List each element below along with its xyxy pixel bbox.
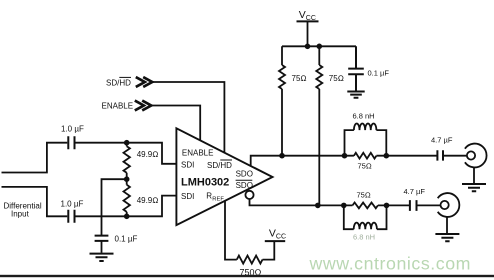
connector J2 BNC bottom	[438, 193, 460, 217]
svg-text:ENABLE: ENABLE	[102, 102, 134, 111]
svg-text:49.9Ω: 49.9Ω	[137, 196, 159, 205]
svg-text:75Ω: 75Ω	[357, 190, 371, 199]
wire ENABLE input	[151, 106, 200, 141]
wire SDO output stub	[251, 156, 345, 166]
node Vcc stem junction	[305, 44, 311, 50]
svg-text:SDO: SDO	[236, 181, 253, 190]
ground under C4	[347, 92, 364, 98]
wire cap to ground	[101, 241, 103, 253]
wire mid node branch	[102, 179, 127, 235]
ground under J2	[435, 234, 459, 241]
wire BNC to ground	[473, 167, 475, 183]
node SDOb/pullup	[315, 203, 321, 209]
wire C6 to BNC	[417, 204, 440, 206]
resistor R7 75ohm top	[345, 153, 387, 159]
svg-text:SDI: SDI	[181, 192, 194, 201]
svg-text:V: V	[269, 228, 276, 240]
svg-text:1.0 µF: 1.0 µF	[61, 200, 84, 209]
node mid R3/R4	[124, 176, 130, 182]
svg-text:ENABLE: ENABLE	[182, 149, 214, 158]
node pullup2 junction	[317, 44, 323, 50]
connector J1 BNC top	[465, 144, 487, 168]
svg-text:75Ω: 75Ω	[329, 74, 344, 83]
svg-text:75Ω: 75Ω	[358, 162, 372, 171]
svg-text:1.0 µF: 1.0 µF	[61, 124, 84, 133]
node combo bottom right	[384, 203, 390, 209]
svg-text:4.7 µF: 4.7 µF	[431, 136, 453, 145]
op-amp U1 LMH0302 triangle	[176, 128, 272, 225]
arrow ENABLE chevrons	[135, 101, 151, 111]
resistor R3 49.9ohm top	[124, 143, 130, 185]
resistor R9 750ohm Rref	[225, 202, 274, 264]
svg-text:SDO: SDO	[236, 170, 253, 179]
svg-text:Input: Input	[11, 209, 30, 218]
node row2/R4	[124, 214, 130, 220]
wire to C5	[386, 155, 436, 157]
wire Vcc stem	[307, 21, 309, 46]
wire input stub top	[2, 143, 68, 173]
wire Vcc rail	[282, 45, 356, 47]
svg-text:SD/HD: SD/HD	[207, 161, 232, 170]
svg-text:CC: CC	[306, 15, 316, 22]
wire input stub bottom	[2, 187, 68, 216]
svg-text:75Ω: 75Ω	[292, 74, 307, 83]
svg-text:www.cntronics.com: www.cntronics.com	[309, 254, 472, 274]
bottom rule	[0, 275, 494, 277]
wire SDO-bar output	[250, 199, 344, 205]
resistor R4 49.9ohm bottom	[124, 185, 130, 217]
svg-text:0.1 µF: 0.1 µF	[115, 235, 138, 244]
ground left	[90, 254, 114, 261]
node combo top left	[342, 153, 348, 159]
capacitor C2 1.0uF bottom plates	[68, 210, 74, 223]
svg-text:49.9Ω: 49.9Ω	[137, 150, 159, 159]
wire row2 to SDI pin	[76, 196, 177, 217]
capacitor C6 4.7uF plates	[410, 200, 417, 211]
resistor R5 75ohm pullup left	[279, 46, 285, 155]
svg-text:CC: CC	[276, 234, 286, 241]
inductor L2 6.8nH bottom	[344, 205, 387, 229]
svg-text:0.1 µF: 0.1 µF	[368, 69, 390, 78]
power Vcc bottom bar	[265, 240, 285, 242]
arrow SD/HD chevrons	[136, 77, 152, 87]
wire to C6	[387, 204, 410, 206]
svg-text:6.8 nH: 6.8 nH	[353, 112, 375, 121]
wire SD/HD input	[152, 82, 224, 153]
svg-text:V: V	[299, 9, 306, 21]
svg-text:6.8 nH: 6.8 nH	[353, 232, 375, 241]
svg-text:4.7 µF: 4.7 µF	[404, 187, 426, 196]
node dots	[124, 44, 389, 220]
output bubble SDO-bar	[245, 191, 253, 199]
inductor L1 6.8nH top	[345, 124, 387, 156]
capacitor C5 4.7uF plates	[437, 150, 443, 160]
capacitor C4 0.1uF plates	[348, 46, 364, 91]
svg-text:SD/HD: SD/HD	[106, 78, 131, 87]
power Vcc top bar	[297, 20, 319, 22]
node combo bottom left	[341, 203, 347, 209]
node row1/R3	[124, 140, 130, 146]
resistor R6 75ohm pullup right	[316, 46, 322, 205]
wire C5 to BNC	[444, 155, 467, 157]
svg-text:REF: REF	[212, 197, 224, 203]
wire row1 to SDI pin	[76, 143, 177, 164]
resistor R8 75ohm bottom	[344, 203, 387, 209]
svg-text:LMH0302: LMH0302	[181, 176, 229, 188]
ground under J1	[462, 184, 486, 191]
node combo top right	[384, 153, 390, 159]
capacitor C1 1.0uF top plates	[68, 136, 74, 149]
svg-text:SDI: SDI	[181, 161, 194, 170]
node SDO/pullup	[279, 153, 285, 159]
capacitor C3 0.1uF left plates	[95, 236, 109, 241]
wire BNC2 to ground	[446, 217, 448, 233]
